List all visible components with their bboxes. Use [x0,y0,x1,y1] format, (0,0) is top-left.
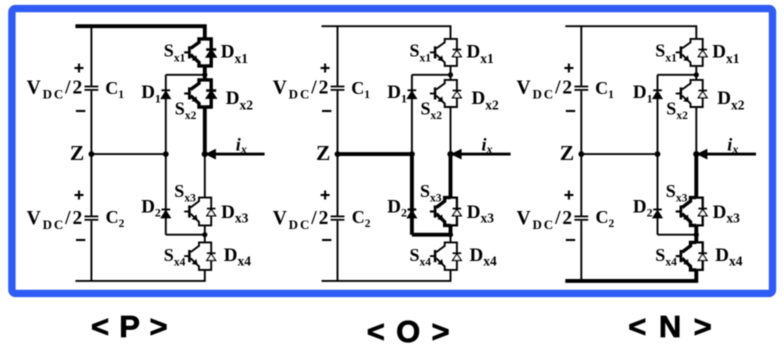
polarity - lower (N) [566,239,575,241]
polarity - upper (O) [322,110,331,112]
current arrow ix (P) [215,153,265,156]
junction: clamp-Z (P) [163,151,169,157]
current arrow ix (N) [706,153,756,156]
diode Dx2 antiparallel (N) [696,80,707,107]
polarity + upper (N) [564,67,573,69]
wire: leg J34-S4 (N) [694,235,698,243]
polarity - lower (P) [76,239,85,241]
diode Dx4 antiparallel (N) [696,242,707,270]
junction J34 (O) [448,232,453,237]
transistor Sx3 IGBT (P) [184,198,205,226]
diode Dx3 antiparallel (N) [696,198,707,226]
node output midpoint (O) [447,151,453,157]
svg-text:Z: Z [560,141,574,165]
diode Dx3 antiparallel (P) [205,198,216,226]
diode Dx3 antiparallel (O) [451,198,462,226]
wire: bottom DC bus (N) [565,270,696,281]
wire: leg S1-S2 (N) [695,66,697,80]
wire: clamp vertical upper (N) [657,75,659,154]
junction J12 (N) [694,72,699,77]
wire: leg mid-S3 (N) [694,154,698,198]
wire: leg S2-mid (N) [695,107,697,154]
wire: clamp jog to J12 (O) [412,74,451,76]
wire: leg S1-S2 (P) [203,66,207,80]
transistor Sx3 IGBT (N) [676,198,697,226]
node Z (P) [89,151,95,157]
diode Dx4 antiparallel (O) [451,242,462,270]
svg-text:< N >: < N > [628,309,713,344]
wire: clamp vertical lower (O) [410,154,414,235]
junction: clamp-Z (O) [409,151,415,157]
transistor Sx4 IGBT (P) [184,242,205,270]
wire: leg S3-J34 (P) [204,225,206,234]
diode Dx1 antiparallel (P) [205,39,216,66]
wire: clamp jog to J34 (P) [166,234,205,236]
wire: Z to clamp leg (N) [581,153,657,155]
svg-text:< P >: < P > [91,309,168,344]
transistor Sx3 IGBT (O) [430,198,451,226]
polarity + lower (O) [321,194,330,196]
polarity + upper (P) [75,67,84,69]
wire: left DC rail (N) [580,26,582,281]
transistor Sx1 IGBT (N) [676,39,697,66]
diode D2 (N) [653,209,662,211]
polarity - upper (N) [566,110,575,112]
transistor Sx2 IGBT (O) [430,80,451,107]
wire: leg J34-S4 (P) [204,235,206,243]
junction J34 (N) [694,232,699,237]
transistor Sx2 IGBT (P) [184,80,205,107]
junction J12 (P) [202,72,207,77]
wire: clamp vertical upper (O) [411,75,413,154]
wire: clamp vertical lower (N) [657,154,659,235]
capacitor C1 (O) [331,86,345,88]
capacitor C1 (P) [85,86,99,88]
node output midpoint (P) [202,151,208,157]
junction J34 (P) [202,232,207,237]
wire: clamp jog to J34 (N) [658,234,697,236]
wire: leg S2-mid (O) [450,107,452,154]
polarity - upper (P) [76,110,85,112]
transistor Sx1 IGBT (P) [184,39,205,66]
transistor Sx1 IGBT (O) [430,39,451,66]
wire: bottom DC bus (P) [75,270,204,281]
polarity + lower (P) [75,194,84,196]
wire: leg J34-S4 (O) [450,235,452,243]
current arrow ix (O) [461,153,511,156]
wire: leg S2-mid (P) [203,107,207,154]
capacitor C2 (O) [331,215,345,217]
wire: top DC bus (P) [75,26,204,39]
wire: leg S3-J34 (N) [694,225,698,234]
diode D1 (P) [162,89,171,91]
wire: left DC rail (P) [90,26,92,281]
diode D2 (P) [162,209,171,211]
svg-text:< O >: < O > [367,314,451,349]
circuit state N [517,26,757,281]
junction: clamp-Z (N) [655,151,661,157]
diode Dx1 antiparallel (O) [451,39,462,66]
diode Dx2 antiparallel (O) [451,80,462,107]
svg-text:Z: Z [316,141,330,165]
wire: leg S3-J34 (O) [449,225,453,234]
polarity - lower (O) [322,239,331,241]
circuit state O [273,26,511,281]
transistor Sx4 IGBT (N) [676,242,697,270]
diode D1 (O) [408,89,417,91]
transistor Sx2 IGBT (N) [676,80,697,107]
wire: left DC rail (O) [337,26,339,281]
wire: clamp vertical lower (P) [165,154,167,235]
wire: leg mid-S3 (P) [204,154,206,198]
wire: Z to clamp leg (P) [91,153,165,155]
junction J12 (O) [448,72,453,77]
wire: clamp jog to J12 (P) [166,74,205,76]
wire: top DC bus (O) [322,26,451,39]
wire: clamp jog to J12 (N) [658,74,697,76]
diode Dx2 antiparallel (P) [205,80,216,107]
capacitor C1 (N) [574,86,588,88]
diode D2 (O) [408,208,417,210]
wire: clamp jog to J34 (O) [412,233,451,237]
wire: clamp vertical upper (P) [165,75,167,154]
svg-text:Z: Z [70,141,84,165]
transistor Sx4 IGBT (O) [430,242,451,270]
polarity + lower (N) [564,194,573,196]
wire: bottom DC bus (O) [322,270,451,281]
diode Dx4 antiparallel (P) [205,242,216,270]
capacitor C2 (P) [85,215,99,217]
wire: leg mid-S3 (O) [449,154,453,198]
wire: leg S1-S2 (O) [450,66,452,80]
circuit state P [27,26,265,281]
polarity + upper (O) [321,67,330,69]
node output midpoint (N) [693,151,699,157]
wire: top DC bus (N) [565,26,696,39]
diode Dx1 antiparallel (N) [696,39,707,66]
wire: Z to clamp leg (O) [338,152,412,156]
capacitor C2 (N) [574,215,588,217]
node Z (N) [578,151,584,157]
node Z (O) [335,151,341,157]
diode D1 (N) [653,89,662,91]
